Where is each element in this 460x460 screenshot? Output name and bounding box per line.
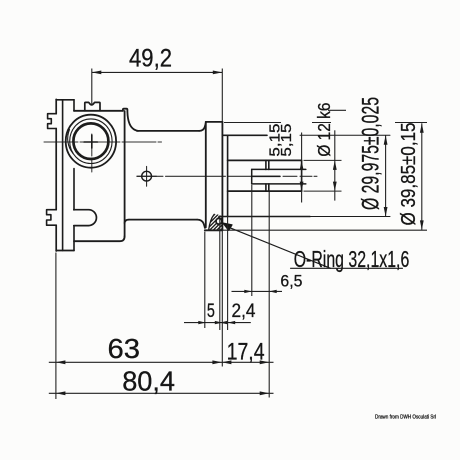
mounting slot rounded mouth xyxy=(74,210,97,226)
bearing cylinder top extension xyxy=(300,134,390,136)
arrow dia3985 up xyxy=(420,123,424,133)
mounting plate inner line xyxy=(62,100,64,251)
svg-text:5: 5 xyxy=(207,300,215,322)
arrow 5 right outside xyxy=(220,321,228,324)
arrow 17,4 right xyxy=(260,360,270,364)
svg-text:49,2: 49,2 xyxy=(129,44,172,72)
svg-text:80,4: 80,4 xyxy=(122,365,175,396)
shaft top line xyxy=(228,159,302,161)
centerline port circle vertical xyxy=(91,134,93,174)
svg-text:Ø 12 k6: Ø 12 k6 xyxy=(314,103,334,157)
boss to snout bottom fillet xyxy=(125,220,129,224)
arrow dia12 up xyxy=(333,160,337,170)
arrow 5,15 up xyxy=(300,160,304,170)
arrow 6,5 left outside xyxy=(244,290,252,293)
arrow 5 left outside xyxy=(198,321,206,324)
mounting plate bottom edge xyxy=(56,250,74,252)
snout bottom line xyxy=(129,219,197,221)
arrow dia3985 down xyxy=(420,220,424,230)
bearing cylinder bottom line xyxy=(219,216,310,218)
o-ring spigot right edge xyxy=(227,135,229,216)
dim line 5 and 2,4 xyxy=(184,322,251,324)
snout top fillet into flange xyxy=(199,123,206,131)
extension master right of flange xyxy=(221,69,223,367)
extension flange top segments xyxy=(224,122,427,124)
dim line 63 and 17,4 xyxy=(49,361,274,363)
small plug hole crosshair xyxy=(137,166,157,186)
snout top line xyxy=(137,130,200,132)
svg-text:O-Ring 32,1x1,6: O-Ring 32,1x1,6 xyxy=(294,246,410,272)
bearing cylinder bottom extension xyxy=(310,216,390,218)
shaft slot top line xyxy=(252,168,306,170)
extension 17,4 80,4 right xyxy=(268,192,270,398)
port crosshair bold dashes xyxy=(84,135,98,148)
arrow dia29975 up xyxy=(384,135,388,145)
small plug hole circle xyxy=(142,171,152,181)
flange bottom edge xyxy=(205,229,223,231)
arrow 49,2 right xyxy=(213,71,223,75)
foot bottom and corner xyxy=(74,236,125,241)
body top edge xyxy=(74,110,123,112)
dim line 5,15 vertical at shaft end xyxy=(301,133,303,203)
leader line xyxy=(229,227,331,268)
arrow 6,5 right outside xyxy=(269,290,277,293)
svg-text:17,4: 17,4 xyxy=(227,339,265,366)
extension 2,4 right xyxy=(227,217,229,331)
svg-text:5,15: 5,15 xyxy=(278,124,295,157)
o-ring cross section circle xyxy=(216,218,222,224)
flange right edge xyxy=(221,122,223,230)
dim line 80,4 xyxy=(49,392,274,394)
shaft bottom line xyxy=(228,190,302,192)
arrow 49,2 left xyxy=(92,71,102,75)
shaft slot bottom line xyxy=(252,183,306,185)
extension 6,5 left xyxy=(251,185,253,296)
port middle ring xyxy=(70,119,112,164)
leader underline xyxy=(291,267,403,269)
extension 63 80,4 left xyxy=(55,253,57,400)
port inner bore bold ring xyxy=(73,123,108,159)
svg-text:63: 63 xyxy=(108,333,141,364)
dimension texts xyxy=(108,44,437,420)
dim line 49,2 xyxy=(92,71,223,73)
o-ring section hatch xyxy=(199,211,238,236)
shaft slot middle line xyxy=(252,175,280,177)
arrow 80,4 left xyxy=(56,391,66,395)
arrow 63 right xyxy=(212,360,222,364)
boss right edge xyxy=(124,111,126,237)
svg-text:6,5: 6,5 xyxy=(280,272,302,291)
top lug with notch xyxy=(85,102,100,110)
svg-text:Drawn from DWH Osculati Srl: Drawn from DWH Osculati Srl xyxy=(375,415,436,421)
arrow dia29975 down xyxy=(384,207,388,217)
extension 49,2 left xyxy=(91,69,93,106)
arrow 5,15 down xyxy=(300,182,304,192)
centerline port circle horizontal xyxy=(44,141,162,143)
bearing cylinder top line xyxy=(222,134,267,136)
mounting plate left edge xyxy=(55,99,57,251)
arrowheads xyxy=(56,71,424,396)
dimension lines with arrows xyxy=(49,72,422,393)
arrow 2,4 left outside xyxy=(215,321,223,324)
mounting plate top edge xyxy=(56,99,74,101)
arrow 2,4 right outside xyxy=(228,321,236,324)
circlip groove lines xyxy=(266,160,269,191)
extension 5 left below flange xyxy=(204,232,206,329)
snout bottom fillet into flange xyxy=(197,220,205,228)
thin extension lines xyxy=(56,69,427,400)
extension stub upper right xyxy=(328,109,346,111)
flange top edge xyxy=(206,121,223,123)
svg-text:2,4: 2,4 xyxy=(232,300,256,322)
extension shaft diameter right xyxy=(304,160,342,191)
svg-text:Ø 39,85±0,15: Ø 39,85±0,15 xyxy=(397,123,420,226)
mounting plate right line xyxy=(73,100,75,251)
port outer ring xyxy=(66,115,116,168)
extension flange bottom long xyxy=(205,229,427,231)
flange left edge xyxy=(205,122,207,227)
dim line diameter 12 xyxy=(334,130,336,200)
dim line 6,5 xyxy=(232,290,283,292)
port partial casting arc xyxy=(68,130,73,154)
arrow 17,4 left xyxy=(222,360,232,364)
extension 5 right groove wall xyxy=(219,216,221,331)
centerline shaft axis xyxy=(137,175,317,177)
dim line diameter 29,975 xyxy=(385,135,387,216)
lower ear with notch xyxy=(47,210,57,226)
shaft end face xyxy=(301,160,303,191)
svg-text:Ø 29,975±0,025: Ø 29,975±0,025 xyxy=(358,97,385,210)
leader arrowhead to o-ring xyxy=(223,223,232,230)
arrow dia12 down xyxy=(333,182,337,192)
arrow 80,4 right xyxy=(260,391,270,395)
upper ear with notch xyxy=(48,114,57,129)
dim line diameter 39,85 xyxy=(421,123,423,230)
body top-right corner bump and rounded step xyxy=(123,109,138,131)
shaft slot left edge xyxy=(251,169,253,184)
arrow 63 left xyxy=(56,360,66,364)
